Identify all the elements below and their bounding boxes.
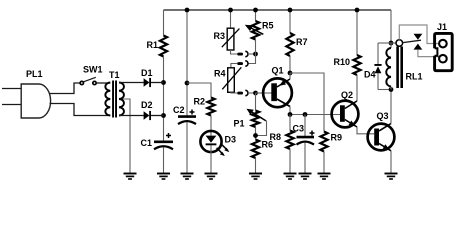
wire Q3 collector to relay: [390, 90, 392, 124]
svg-text:R5: R5: [262, 21, 274, 31]
plug PL1: [2, 88, 21, 90]
svg-text:R4: R4: [214, 69, 226, 79]
wire Q2 emitter to Q3 base: [357, 127, 374, 134]
wire R7 top: [289, 10, 291, 33]
connector pair row 2: [248, 54, 256, 64]
wire NO contact to J1 bottom: [418, 50, 439, 57]
svg-text:Q1: Q1: [272, 66, 284, 76]
svg-text:D2: D2: [141, 100, 153, 110]
resistor R8: [286, 131, 293, 150]
resistor R1: [160, 36, 167, 57]
resistor R9: [320, 132, 327, 152]
transistor Q2: [332, 101, 359, 128]
wire Q3 emitter to ground: [390, 151, 392, 174]
svg-text:R7: R7: [296, 37, 308, 47]
svg-text:P1: P1: [233, 119, 244, 129]
wire R3 bottom to connector: [231, 50, 238, 54]
relay RL1 coil: [390, 43, 392, 48]
wire rectifier bus: [163, 57, 165, 142]
transformer T1 core: [112, 81, 114, 118]
wire P1 wiper bracket: [256, 121, 267, 136]
ground at x=187: [181, 174, 194, 180]
wire T1 center tap to ground: [119, 99, 130, 174]
svg-text:R3: R3: [214, 31, 226, 41]
wire C2 to ground: [186, 122, 188, 173]
diode D1: [119, 82, 144, 84]
trimmer R3: [227, 28, 234, 50]
resistor R2: [207, 98, 214, 116]
capacitor C1: [154, 141, 173, 144]
capacitor C2: [178, 115, 196, 118]
connector J1: [435, 33, 453, 70]
svg-text:Q3: Q3: [377, 111, 389, 121]
wire rail to relay node: [390, 10, 392, 43]
ground at x=305: [299, 174, 312, 180]
wire R5 bottom: [255, 40, 257, 55]
svg-text:R10: R10: [333, 57, 350, 67]
svg-text:SW1: SW1: [83, 65, 103, 75]
ground at x=163.5: [157, 174, 170, 180]
wire contact common to J1 top: [399, 25, 439, 44]
svg-text:D3: D3: [225, 135, 237, 145]
wire C1 to ground: [163, 148, 165, 174]
svg-text:D4: D4: [364, 70, 376, 80]
resistor R7: [286, 33, 293, 56]
wire Q1 emitter node to R9: [290, 73, 324, 132]
wire R1 top lead: [163, 10, 165, 36]
wire C2 column from rail: [186, 10, 188, 116]
capacitor C3: [304, 115, 306, 137]
diode D2: [119, 115, 144, 117]
svg-text:C2: C2: [173, 105, 185, 115]
wire plug to T1 primary bottom: [50, 104, 111, 116]
svg-text:Q2: Q2: [341, 90, 353, 100]
wire R3 top: [230, 10, 232, 28]
ground at x=130: [124, 174, 137, 180]
trimmer R4: [228, 68, 235, 93]
wire Q2 base node line: [290, 114, 340, 116]
svg-text:D1: D1: [141, 68, 153, 78]
diode D4: [378, 42, 391, 44]
transformer T1 primary: [105, 83, 110, 116]
connector pair row 1: [237, 53, 243, 56]
transistor Q3: [368, 124, 395, 151]
svg-text:R8: R8: [269, 132, 281, 142]
svg-text:R1: R1: [146, 40, 158, 50]
resistor R6: [252, 140, 259, 159]
svg-text:R2: R2: [193, 97, 205, 107]
svg-text:J1: J1: [437, 22, 447, 32]
wire R2 to D3: [210, 116, 212, 136]
wire P1 bottom junction: [255, 127, 257, 140]
node D1-D2 bus junction dots: [161, 80, 166, 85]
potentiometer R5: [252, 21, 259, 40]
svg-text:PL1: PL1: [26, 69, 43, 79]
svg-text:T1: T1: [109, 70, 120, 80]
svg-text:C1: C1: [140, 138, 152, 148]
svg-text:R9: R9: [331, 133, 343, 143]
ground at x=391: [385, 174, 398, 180]
wire R5 top: [255, 10, 257, 21]
LED D3: [200, 131, 221, 152]
ground at x=211: [205, 174, 218, 180]
connector pair row 3: [231, 91, 237, 94]
wire R2 branch: [187, 83, 211, 98]
resistor R10: [353, 55, 360, 75]
ground at x=255.5: [249, 174, 262, 180]
wire R10 top: [356, 10, 358, 55]
transformer T1 secondary: [119, 83, 124, 116]
relay RL1 core: [396, 47, 399, 89]
ground at x=290: [284, 174, 297, 180]
potentiometer P1: [252, 111, 259, 128]
top rail (+V) wire: [164, 9, 392, 11]
switch SW1: [80, 81, 83, 84]
svg-text:RL1: RL1: [406, 72, 423, 82]
wire plug to switch: [50, 83, 81, 94]
transistor Q1: [263, 78, 292, 107]
ground at x=324: [318, 174, 331, 180]
svg-text:C3: C3: [292, 124, 304, 134]
wire to P1: [255, 93, 257, 111]
wire node to Q1 base: [256, 92, 272, 94]
relay contact: [391, 42, 396, 44]
